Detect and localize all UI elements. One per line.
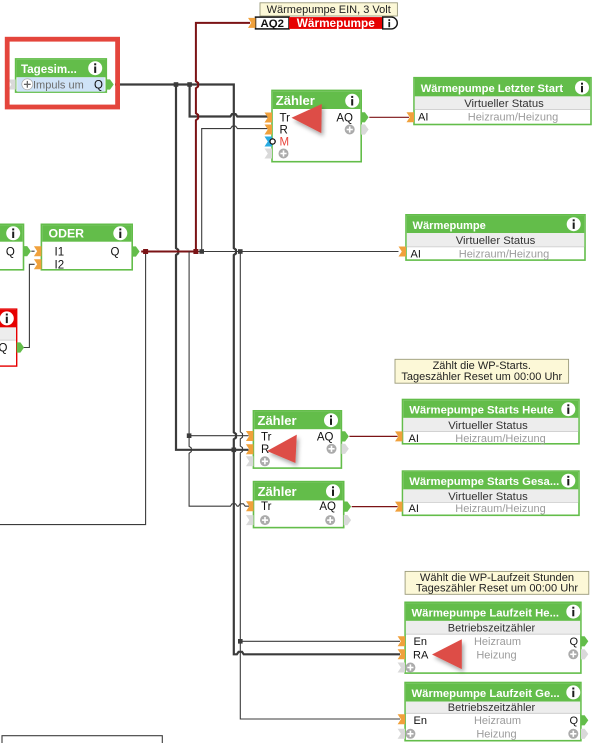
svg-text:R: R bbox=[261, 444, 269, 456]
connector: AI input (orange) bbox=[395, 431, 403, 441]
svg-text:AQ2: AQ2 bbox=[260, 18, 283, 30]
node: junction ON wire x240.3 bbox=[238, 249, 243, 254]
svg-text:Wärmepumpe Starts Heute: Wärmepumpe Starts Heute bbox=[409, 405, 553, 417]
svg-text:M: M bbox=[280, 137, 290, 149]
connector: AI input (orange) bbox=[407, 112, 415, 122]
svg-text:Q: Q bbox=[569, 636, 578, 648]
svg-text:Betriebszeitzähler: Betriebszeitzähler bbox=[448, 623, 536, 635]
connector: Tagesim output Q (green knob) bbox=[106, 79, 113, 89]
block: Tagesimpuls timer "Tagesim..." bbox=[8, 59, 114, 92]
block: status Waermepumpe Letzter Start bbox=[407, 78, 592, 125]
connector: expand input (grey) bbox=[246, 456, 254, 466]
svg-text:Heizraum/Heizung: Heizraum/Heizung bbox=[455, 433, 545, 445]
svg-text:Q: Q bbox=[111, 246, 120, 258]
svg-text:AI: AI bbox=[418, 112, 428, 124]
connector: M input (blue with dot) bbox=[265, 137, 273, 147]
wire: En1 branch bbox=[240, 640, 400, 642]
svg-text:Heizraum: Heizraum bbox=[474, 636, 521, 648]
svg-text:Wärmepumpe Laufzeit He...: Wärmepumpe Laufzeit He... bbox=[412, 608, 560, 620]
svg-text:Zähler: Zähler bbox=[258, 413, 297, 428]
connector: Tr input (orange) bbox=[246, 501, 254, 511]
wire: red block Q to ODER I2 bbox=[22, 264, 34, 347]
block: ODER (OR gate) bbox=[34, 224, 140, 271]
block: Betriebszeitzaehler Waermepumpe Laufzeit Gesamt bbox=[398, 683, 589, 741]
connector: ODER I1 input (orange) bbox=[34, 246, 42, 256]
connector: En input (orange) bbox=[398, 714, 406, 724]
connector: AQ output (green knob) bbox=[341, 431, 348, 441]
annotation: red triangle 2 pointing at R bbox=[267, 435, 297, 463]
svg-text:AI: AI bbox=[411, 248, 421, 260]
node: junction R2 wire with x233.8 bbox=[232, 448, 237, 453]
wire: AQ Zaehler2 to AI Starts Heute bbox=[349, 435, 397, 437]
connector: R input (orange) bbox=[265, 125, 273, 135]
svg-text:RA: RA bbox=[413, 649, 429, 661]
svg-text:Tagesim...: Tagesim... bbox=[21, 63, 77, 76]
svg-text:AQ: AQ bbox=[319, 501, 336, 513]
svg-text:I1: I1 bbox=[55, 246, 65, 258]
svg-text:Virtueller Status: Virtueller Status bbox=[456, 235, 536, 247]
connector: expand output (grey knob) bbox=[361, 124, 368, 134]
svg-text:Zähler: Zähler bbox=[276, 93, 315, 108]
svg-text:Zählt die WP-Starts.: Zählt die WP-Starts. bbox=[433, 360, 531, 372]
wire: AQ1 to AI Letzter Start (dark red) bbox=[369, 116, 409, 118]
connector: AI input (orange) bbox=[399, 247, 407, 257]
svg-text:Tr: Tr bbox=[261, 501, 272, 513]
svg-text:AQ: AQ bbox=[336, 113, 353, 125]
annotation: red triangle 1 pointing at Tr bbox=[292, 104, 322, 133]
wire: left block Q to ODER I1 bbox=[31, 250, 34, 252]
connector: RA input (orange) bbox=[398, 649, 406, 659]
svg-text:Virtueller Status: Virtueller Status bbox=[464, 98, 544, 110]
note: Waehlt die WP-Laufzeit Stunden bbox=[405, 571, 589, 594]
svg-text:Heizraum/Heizung: Heizraum/Heizung bbox=[455, 503, 545, 515]
svg-text:Q: Q bbox=[6, 246, 15, 258]
svg-text:Impuls um: Impuls um bbox=[33, 79, 84, 91]
connector: Q output (green knob) bbox=[581, 636, 588, 646]
connector: Tagesim input (grey flag) bbox=[8, 80, 16, 90]
svg-text:I2: I2 bbox=[55, 259, 65, 271]
note: Zaehlt die WP-Starts bbox=[395, 359, 569, 383]
wire: ON net down x=145.6 then left off-canvas bbox=[0, 252, 146, 525]
svg-text:AQ: AQ bbox=[317, 431, 334, 443]
svg-text:Virtueller Status: Virtueller Status bbox=[448, 420, 528, 432]
svg-text:Tr: Tr bbox=[280, 113, 291, 125]
node: junction ON wire x201.7 bbox=[199, 249, 204, 254]
node: junction Tagesim bus x176 bbox=[174, 82, 179, 87]
wire: AQ Zaehler3 to AI Starts Gesamt bbox=[352, 506, 398, 508]
svg-text:Q: Q bbox=[0, 343, 8, 355]
node: red junction x195.9 bbox=[193, 249, 198, 254]
connector: AI input (orange) bbox=[395, 502, 403, 512]
svg-text:AI: AI bbox=[409, 433, 419, 445]
svg-text:Tageszähler Reset um 00:00 Uhr: Tageszähler Reset um 00:00 Uhr bbox=[401, 371, 562, 383]
svg-text:Zähler: Zähler bbox=[258, 484, 297, 499]
wire: ODER Q red segment bbox=[141, 251, 196, 253]
connector: Tr input (orange) bbox=[246, 431, 254, 441]
block: Zaehler 2 (counter) bbox=[246, 411, 349, 468]
connector: expand input (grey) bbox=[246, 515, 254, 525]
wire: Tagesim to R of Zaehler2 via x=176 (thick), hop over ON wire bbox=[176, 85, 249, 450]
svg-text:Wärmepumpe Letzter Start: Wärmepumpe Letzter Start bbox=[421, 83, 564, 95]
connector: ODER I2 input (orange) bbox=[34, 259, 42, 269]
node: junction En1 branch bbox=[238, 639, 243, 644]
svg-text:Wärmepumpe Starts Gesa...: Wärmepumpe Starts Gesa... bbox=[409, 476, 559, 488]
svg-text:AI: AI bbox=[409, 503, 419, 515]
wire: Tagesim to Tr1 via x=189.6 (thick), hop over x=233.8 bbox=[190, 85, 268, 117]
connector: Q output (green knob) bbox=[581, 715, 588, 725]
block: actor AQ2 Waermepumpe bbox=[248, 16, 397, 30]
block: Betriebszeitzaehler Waermepumpe Laufzeit Heute bbox=[398, 602, 589, 673]
note: Waermepumpe EIN, 3 Volt bbox=[260, 3, 397, 16]
block: partial block top-left with output Q bbox=[0, 224, 31, 269]
connector: expand input (grey) bbox=[398, 663, 406, 673]
connector: expand output (grey knob) bbox=[344, 515, 351, 525]
wire: ON net down x=240.3 to En wires, hops bbox=[240, 252, 400, 720]
svg-text:Wärmepumpe EIN, 3 Volt: Wärmepumpe EIN, 3 Volt bbox=[267, 4, 391, 16]
node: junction Tr2 branch bbox=[187, 433, 192, 438]
connector: AQ output (green knob) bbox=[361, 112, 368, 122]
connector: AQ2 input (orange) bbox=[248, 18, 256, 28]
connector: expand input (grey) bbox=[398, 729, 406, 739]
wire: Tr2 branch bbox=[189, 435, 249, 437]
svg-text:En: En bbox=[414, 636, 427, 648]
connector: expand output (grey knob) bbox=[341, 444, 348, 454]
block: status Waermepumpe Starts Gesamt bbox=[395, 471, 579, 515]
svg-text:Q: Q bbox=[94, 80, 103, 92]
annotation: red triangle 3 pointing at RA bbox=[432, 639, 462, 669]
svg-text:Tr: Tr bbox=[261, 431, 272, 443]
connector: expand output (grey knob) bbox=[581, 649, 588, 659]
connector: AQ output (green knob) bbox=[344, 502, 351, 512]
svg-text:R: R bbox=[280, 125, 288, 137]
wire: ON net black to Waermepumpe status AI bbox=[196, 251, 399, 253]
svg-text:Heizraum/Heizung: Heizraum/Heizung bbox=[459, 248, 549, 260]
svg-text:Heizung: Heizung bbox=[476, 649, 516, 661]
wire: Tagesim Q main bus (thick) with corner down at x=233.8, hops, RA branch bbox=[115, 85, 400, 655]
connector: Tr input (orange) bbox=[265, 113, 273, 123]
connector: expand output (grey knob) bbox=[581, 729, 588, 739]
svg-text:ODER: ODER bbox=[49, 227, 85, 241]
node: junction Tagesim bus x189.6 bbox=[187, 82, 192, 87]
wire: R1 wire from ON net via x=201.7 (thin), hop over x=233.8 bbox=[202, 126, 268, 251]
node: red junction x145.6 bbox=[143, 249, 148, 254]
svg-text:Wärmepumpe Laufzeit Ge...: Wärmepumpe Laufzeit Ge... bbox=[412, 688, 560, 700]
connector: red block output Q (green knob) bbox=[17, 342, 24, 352]
block: Zaehler 3 (counter) bbox=[246, 482, 351, 528]
svg-text:Heizraum/Heizung: Heizraum/Heizung bbox=[468, 112, 558, 124]
connector: output Q green knob bbox=[24, 246, 31, 256]
svg-text:Heizung: Heizung bbox=[476, 729, 516, 741]
connector: ODER output Q (green knob) bbox=[132, 246, 139, 256]
cursor circle with plus bbox=[22, 79, 33, 90]
svg-text:En: En bbox=[414, 715, 427, 727]
connector: expand input (grey) bbox=[265, 149, 273, 159]
connector: En input (orange) bbox=[398, 636, 406, 646]
block: bottom-left partial box bbox=[2, 736, 162, 743]
wire: red vertical to AQ2 actor with hops bbox=[196, 23, 250, 252]
block: status Waermepumpe bbox=[399, 215, 586, 260]
wire: ON net down x=189.1 to Tr3, hops bbox=[189, 252, 249, 507]
svg-text:Tageszähler Reset um 00:00 Uhr: Tageszähler Reset um 00:00 Uhr bbox=[416, 583, 578, 595]
svg-text:Wärmepumpe: Wärmepumpe bbox=[297, 16, 375, 30]
svg-text:Virtueller Status: Virtueller Status bbox=[448, 491, 528, 503]
svg-text:Heizraum: Heizraum bbox=[474, 715, 521, 727]
block: status Waermepumpe Starts Heute bbox=[395, 400, 579, 445]
connector: R input (orange) bbox=[246, 444, 254, 454]
block: partial red actor block bottom-left with output Q bbox=[0, 309, 24, 366]
svg-text:Wärmepumpe: Wärmepumpe bbox=[413, 220, 486, 232]
svg-text:Q: Q bbox=[569, 715, 578, 727]
block: Zaehler 1 (counter) bbox=[265, 90, 369, 161]
selection rectangle (red) around Tagesim bbox=[7, 39, 117, 107]
svg-text:Betriebszeitzähler: Betriebszeitzähler bbox=[448, 702, 536, 714]
